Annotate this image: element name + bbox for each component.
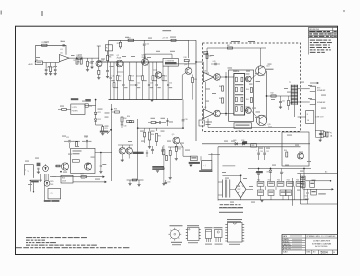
resistor R14 drop bbox=[152, 62, 154, 75]
bridge rectifier CR7 bbox=[235, 181, 246, 197]
resistor R11 bbox=[128, 39, 134, 41]
cluster small parts bbox=[127, 121, 132, 123]
package TO92 Q bbox=[206, 230, 212, 239]
text TO5 labels bbox=[170, 225, 183, 226]
protection box bbox=[282, 132, 309, 166]
resistor R6 bbox=[107, 51, 109, 55]
wire preamp out bbox=[95, 152, 112, 154]
svg-text:R51: R51 bbox=[268, 180, 271, 182]
diode CR1 bbox=[95, 100, 97, 112]
svg-text:Q2: Q2 bbox=[117, 55, 119, 57]
title block bbox=[282, 234, 338, 254]
revision table bbox=[309, 28, 338, 38]
label TONE CONTROL bbox=[152, 166, 164, 168]
connector P2 speaker bbox=[310, 100, 316, 105]
svg-text:C20: C20 bbox=[89, 106, 92, 108]
svg-text:C13: C13 bbox=[150, 83, 153, 85]
text module ref bbox=[204, 51, 208, 54]
potentiometer R25 mic volume bbox=[44, 180, 50, 186]
svg-text:B: B bbox=[334, 252, 336, 254]
component inside box bbox=[72, 160, 79, 163]
resistor R19 bbox=[192, 78, 194, 83]
wire input top bbox=[196, 61, 203, 63]
capacitor C50 electrolytic bbox=[258, 147, 260, 153]
capacitor C33 bbox=[182, 100, 184, 120]
module outline dashed power amp bbox=[202, 43, 300, 131]
svg-text:CR2: CR2 bbox=[97, 119, 100, 121]
transistor Q10 bbox=[214, 74, 221, 81]
svg-text:R41: R41 bbox=[246, 99, 249, 101]
label PREAMP dark bbox=[133, 152, 144, 154]
capacitor C14 drop bbox=[167, 66, 169, 84]
cluster mid extra 2 bbox=[167, 118, 169, 126]
wire q20 drop bbox=[181, 75, 183, 100]
wire verticals ps bbox=[265, 186, 267, 190]
wire pair leads bbox=[121, 154, 123, 160]
transformer T1 output choke bbox=[290, 85, 292, 105]
resistor R37 bbox=[169, 147, 171, 150]
svg-text:2A: 2A bbox=[330, 135, 333, 138]
enclosure preamp box bbox=[71, 148, 95, 173]
wire ps divider bbox=[292, 178, 294, 206]
node shield dot bbox=[33, 191, 34, 192]
wire tone riser bbox=[137, 119, 139, 180]
transistor Q3 bbox=[142, 59, 149, 66]
resistor R21 bbox=[102, 127, 104, 132]
shield box bbox=[48, 189, 61, 199]
bridge diodes bbox=[238, 185, 240, 187]
wire tone bus bbox=[138, 127, 183, 129]
svg-text:25 WATT AMPLIFIER: 25 WATT AMPLIFIER bbox=[313, 240, 331, 243]
resistor R2 bbox=[50, 63, 52, 67]
svg-text:U2: U2 bbox=[204, 70, 206, 72]
svg-text:CR1: CR1 bbox=[97, 112, 100, 114]
svg-text:+17.5V: +17.5V bbox=[162, 38, 169, 40]
op-amp U1 bbox=[59, 55, 69, 62]
svg-text:REVISIONS: REVISIONS bbox=[309, 29, 320, 31]
ground under pots bbox=[149, 144, 151, 147]
transistor Q14 power bbox=[256, 66, 266, 76]
interlock box bbox=[310, 181, 315, 188]
resistor R15 drop bbox=[162, 66, 164, 75]
svg-text:R13: R13 bbox=[131, 76, 134, 78]
resistor R42 feedback bbox=[271, 95, 276, 97]
svg-text:L-136-08: L-136-08 bbox=[236, 131, 243, 133]
wire U1 output bbox=[69, 57, 99, 59]
svg-text:C12: C12 bbox=[137, 83, 140, 85]
capacitor C30 bbox=[121, 123, 123, 125]
text output label bbox=[266, 69, 274, 70]
transistor Q11 bbox=[214, 110, 221, 117]
resistor R13 drop bbox=[129, 62, 131, 75]
resistor R1 bbox=[42, 44, 47, 46]
svg-text:CR5: CR5 bbox=[266, 172, 269, 174]
resistor R12 drop bbox=[116, 62, 118, 75]
outlet box bbox=[311, 189, 317, 195]
transistor Q13 bbox=[245, 108, 251, 114]
box bias small bbox=[199, 120, 204, 126]
transistor Q7 bbox=[119, 148, 125, 154]
resistor R32 bbox=[166, 156, 168, 161]
capacitor C13 drop bbox=[148, 62, 150, 84]
svg-text:R34: R34 bbox=[127, 116, 130, 118]
svg-text:C22: C22 bbox=[85, 137, 88, 139]
svg-text:OPERADIO MFG. CO. ST.CHARLES: OPERADIO MFG. CO. ST.CHARLES bbox=[306, 235, 336, 238]
svg-text:NO.: NO. bbox=[313, 251, 316, 253]
text component value labels bbox=[36, 56, 40, 59]
wire ac line 2 bbox=[300, 203, 337, 205]
svg-text:CR4: CR4 bbox=[241, 140, 244, 142]
svg-text:R18: R18 bbox=[184, 57, 187, 59]
resistor R27 bbox=[81, 176, 86, 178]
svg-text:R26: R26 bbox=[62, 178, 65, 180]
capacitor C22 bbox=[82, 140, 86, 142]
resistor R39 bbox=[144, 128, 146, 132]
package DIP14 bbox=[228, 223, 243, 243]
svg-text:FILTER: FILTER bbox=[72, 110, 78, 112]
svg-text:Q3: Q3 bbox=[142, 55, 144, 57]
svg-text:Q15: Q15 bbox=[267, 124, 270, 126]
svg-text:R56: R56 bbox=[284, 150, 287, 152]
label fl2 dark2 bbox=[85, 99, 91, 102]
svg-text:U1: U1 bbox=[60, 53, 62, 55]
resistor R38 bbox=[115, 111, 120, 113]
capacitor C12 drop bbox=[135, 62, 137, 84]
svg-text:C50: C50 bbox=[260, 151, 263, 153]
svg-text:CHECKED: CHECKED bbox=[283, 244, 292, 246]
wire left riser bbox=[111, 104, 113, 181]
wire vertical pair bbox=[43, 174, 45, 200]
label mic dark bbox=[37, 163, 41, 166]
filter box FL2 bbox=[71, 104, 85, 115]
resistor R46 bbox=[222, 98, 224, 103]
transistor Q4 bbox=[155, 72, 161, 78]
svg-text:SPEAKER: SPEAKER bbox=[317, 89, 326, 92]
wire ground bus ps bbox=[218, 199, 308, 201]
svg-text:SCHEMATIC DIAGRAM: SCHEMATIC DIAGRAM bbox=[312, 242, 332, 245]
svg-text:C14: C14 bbox=[169, 83, 172, 85]
wire shield drop bbox=[33, 182, 35, 191]
diode CR4 bbox=[242, 142, 245, 145]
svg-text:R38: R38 bbox=[114, 109, 117, 111]
svg-text:y: y bbox=[28, 170, 29, 172]
svg-text:+ |: + | bbox=[203, 165, 206, 167]
text package header bbox=[219, 207, 243, 208]
capacitor C1 bbox=[62, 44, 64, 47]
resistor R22 bbox=[76, 142, 78, 147]
svg-text:+ | +: + | + bbox=[50, 193, 54, 195]
fuse F2 bbox=[300, 176, 305, 180]
outer board box bbox=[229, 70, 254, 121]
svg-text:R21: R21 bbox=[105, 128, 108, 130]
svg-text:R42: R42 bbox=[271, 93, 274, 95]
svg-text:R40: R40 bbox=[246, 89, 249, 91]
diode CR3 bbox=[235, 142, 238, 145]
capacitor C32 bbox=[162, 147, 164, 150]
svg-text:16: 16 bbox=[307, 120, 309, 122]
capacitor C51 electrolytic bbox=[264, 147, 266, 153]
capacitor C35 bbox=[146, 150, 148, 152]
svg-text:2N408: 2N408 bbox=[117, 57, 122, 59]
resistor R? drop bbox=[142, 62, 144, 75]
text module top bbox=[231, 41, 240, 42]
svg-text:R2: R2 bbox=[52, 67, 54, 69]
resistor R35 bbox=[175, 144, 177, 146]
label MIC VOLUME bbox=[44, 200, 51, 202]
resistor R40 bbox=[250, 88, 252, 93]
ground tone bbox=[156, 170, 159, 172]
wire bottom rail bbox=[208, 127, 296, 129]
resistor R44 bbox=[323, 132, 325, 137]
wire ac line mid b bbox=[303, 188, 333, 190]
text DIP14 labels bbox=[227, 219, 242, 220]
resistor R3 bbox=[77, 57, 82, 59]
transistor Q12 bbox=[245, 76, 251, 82]
svg-text:DWG.: DWG. bbox=[307, 251, 312, 253]
capacitor C4 bbox=[107, 64, 109, 70]
label MIC INPUT bbox=[31, 181, 39, 183]
svg-text:R12: R12 bbox=[118, 76, 121, 78]
wire top bus bbox=[109, 39, 189, 41]
ground bbox=[101, 132, 104, 134]
wire collector feeds bbox=[251, 75, 256, 80]
label rail dark bbox=[242, 141, 247, 143]
wire mic to pot bbox=[31, 179, 42, 181]
wire speaker feeds bbox=[211, 153, 213, 161]
capacitor C10 bbox=[143, 40, 145, 43]
svg-text:R19: R19 bbox=[194, 79, 197, 81]
wire ground bus bbox=[109, 99, 183, 101]
resistor R48 bbox=[206, 54, 208, 59]
svg-text:C54: C54 bbox=[305, 196, 308, 198]
svg-text:(: ( bbox=[25, 170, 26, 172]
wire opamp outputs bbox=[213, 76, 215, 78]
potentiometer R31 treble bbox=[156, 128, 158, 131]
svg-text:LINE OUT: LINE OUT bbox=[316, 117, 325, 119]
IC U4 power IC bbox=[234, 74, 245, 116]
transistor Q15 power bbox=[256, 115, 266, 125]
capacitor C43 bbox=[214, 63, 216, 66]
transistor Q8 bbox=[126, 148, 132, 154]
wire supply rail 2 bbox=[218, 146, 301, 148]
svg-text:250K: 250K bbox=[62, 180, 67, 182]
wire taps bbox=[298, 88, 310, 90]
resistor R43 bbox=[288, 100, 290, 105]
wire top bus tap bbox=[188, 40, 190, 58]
speaker box B1 bbox=[202, 161, 212, 170]
svg-text:SCALE: SCALE bbox=[283, 251, 288, 254]
svg-text:C51: C51 bbox=[266, 151, 269, 153]
resistor R7 bbox=[76, 59, 78, 64]
wire to out jack bbox=[180, 143, 191, 157]
capacitor C? drop bbox=[122, 62, 124, 84]
svg-text:C21: C21 bbox=[66, 137, 69, 139]
cluster mid extra bbox=[151, 122, 156, 124]
label ps dark bbox=[256, 171, 263, 173]
svg-text:Q20: Q20 bbox=[184, 64, 187, 66]
diode CR5 bbox=[270, 169, 272, 171]
svg-text:AC-DC MODEL: AC-DC MODEL bbox=[315, 245, 328, 248]
bias board box bbox=[234, 123, 252, 129]
svg-text:Q14: Q14 bbox=[266, 66, 269, 68]
svg-text:C10: C10 bbox=[146, 44, 149, 46]
svg-text:R30: R30 bbox=[151, 134, 154, 136]
text TO126 labels bbox=[214, 227, 223, 228]
transistor Q1 bbox=[96, 61, 102, 67]
connector J3 cluster bbox=[191, 156, 198, 161]
svg-text:F1: F1 bbox=[330, 133, 332, 135]
svg-text:R6: R6 bbox=[109, 57, 111, 59]
text DIP8 labels bbox=[187, 225, 199, 226]
wire feedback left bbox=[205, 82, 207, 109]
capacitor C42 bbox=[319, 131, 321, 133]
wire main signal bus bbox=[99, 61, 163, 63]
transistor Q20 bbox=[185, 68, 192, 75]
wire pot leads bbox=[45, 174, 47, 180]
svg-text:R4: R4 bbox=[89, 63, 91, 65]
svg-text:+: + bbox=[255, 172, 256, 174]
capacitor C? drop bbox=[156, 62, 158, 84]
label fl2 dark bbox=[71, 98, 79, 100]
wire output rail bbox=[266, 71, 268, 121]
resistor network inside U4 bbox=[235, 77, 237, 82]
capacitor C3 bbox=[54, 63, 56, 69]
connector J1 aux jack bbox=[35, 61, 42, 65]
capacitor C34 bbox=[165, 180, 167, 182]
wire top bus left drop bbox=[108, 40, 110, 62]
text U4 interior bbox=[235, 83, 243, 86]
wire stage top link bbox=[145, 53, 172, 55]
transistor Q5 bbox=[61, 163, 68, 170]
wire ac verticals bbox=[299, 174, 301, 205]
text amp labels bbox=[205, 88, 210, 91]
svg-text:R34: R34 bbox=[124, 118, 127, 120]
svg-text:AC: AC bbox=[325, 171, 328, 174]
svg-text:R45: R45 bbox=[219, 86, 222, 88]
capacitor C54 bbox=[307, 189, 309, 192]
svg-text:DRAWN: DRAWN bbox=[283, 238, 290, 241]
svg-text:C41: C41 bbox=[282, 101, 285, 103]
svg-text:R7: R7 bbox=[73, 60, 75, 62]
text enclosure labels bbox=[73, 150, 82, 153]
transistor Q6 bbox=[84, 163, 91, 170]
transformer T2 power bbox=[221, 180, 223, 198]
svg-text:R50: R50 bbox=[257, 180, 260, 182]
diode CR2 bbox=[95, 115, 97, 119]
cluster fuse parts bbox=[321, 131, 323, 133]
connector J2 mic jack bbox=[24, 165, 33, 178]
loudness block LS1 bbox=[163, 58, 178, 66]
svg-text:DATE: DATE bbox=[283, 235, 288, 238]
wire t2 leads bbox=[218, 181, 222, 183]
wire link ticks bbox=[117, 71, 123, 73]
label preamp dark right bbox=[100, 131, 109, 133]
capacitor C23 bbox=[37, 167, 39, 169]
svg-text:5 CPS: 5 CPS bbox=[72, 107, 78, 109]
resistor R45 bbox=[222, 86, 224, 91]
svg-text:CR7: CR7 bbox=[237, 189, 240, 191]
gain block G1 bbox=[61, 175, 73, 183]
resistor row 1 bbox=[257, 181, 264, 186]
svg-text:T1: T1 bbox=[289, 82, 291, 84]
wire mic bus bbox=[73, 181, 105, 183]
wire box links bbox=[281, 132, 283, 144]
op-amp U2 bbox=[203, 72, 213, 82]
wire ac line mid a bbox=[305, 180, 330, 182]
svg-text:R47: R47 bbox=[227, 45, 230, 47]
wire phono bus bbox=[50, 176, 105, 178]
label speaker dark bbox=[199, 170, 212, 172]
svg-text:SPEAKER: SPEAKER bbox=[317, 101, 326, 104]
resistor R18 bbox=[184, 59, 189, 61]
cluster lower bbox=[127, 179, 144, 181]
text notes bbox=[26, 236, 32, 239]
package TO5 bottom view bbox=[170, 230, 179, 239]
capacitor C5 bbox=[91, 58, 93, 62]
wire supply rail 1 bbox=[202, 143, 310, 145]
node junction dots bbox=[98, 61, 99, 62]
svg-text:8: 8 bbox=[307, 114, 308, 116]
svg-text:+: + bbox=[256, 150, 257, 152]
resistor R34 bbox=[129, 121, 134, 123]
notes list right bbox=[308, 38, 310, 55]
ground ps bbox=[260, 199, 263, 201]
svg-text:R35: R35 bbox=[178, 149, 181, 151]
capacitor C52 electrolytic bbox=[258, 169, 260, 173]
svg-text:R31: R31 bbox=[158, 136, 161, 138]
wire output to edge bbox=[267, 95, 292, 97]
node arrow to main bbox=[105, 181, 107, 183]
box CR8 bbox=[251, 144, 257, 148]
wire B+ riser bbox=[195, 40, 197, 141]
resistor R47 bbox=[227, 47, 232, 49]
potentiometer R30 bass bbox=[149, 128, 151, 131]
svg-text:C2: C2 bbox=[47, 67, 49, 69]
svg-text:C33: C33 bbox=[184, 119, 187, 121]
ground J3 bbox=[190, 165, 193, 167]
node wiper arrow bbox=[107, 130, 111, 135]
wire cr link bbox=[315, 130, 324, 132]
potentiometer R24 phono volume bbox=[43, 166, 49, 172]
switch S1 box bbox=[300, 182, 305, 188]
resistor row 2 bbox=[258, 190, 264, 196]
svg-text:U3: U3 bbox=[204, 107, 206, 109]
text bus part no bbox=[162, 30, 171, 31]
resistor R56 bbox=[286, 152, 288, 157]
resistor R34b bbox=[121, 117, 123, 122]
wire bridge leads bbox=[230, 188, 236, 190]
resistor R? drop bbox=[113, 62, 115, 82]
transistor Q9 bbox=[173, 137, 180, 144]
wire stage link bbox=[176, 63, 196, 65]
wire row drops bbox=[260, 196, 262, 200]
svg-text:R27: R27 bbox=[81, 174, 84, 176]
svg-text:C34: C34 bbox=[167, 182, 170, 184]
transistor Q18 bbox=[298, 153, 304, 159]
wire inner rail bbox=[225, 72, 227, 116]
connector P1 ext speaker bbox=[310, 86, 316, 91]
package TO126 bbox=[215, 230, 223, 238]
svg-text:FL: FL bbox=[106, 47, 108, 49]
capacitor C24 bbox=[100, 153, 102, 166]
wire speaker return bbox=[314, 91, 316, 137]
wire feedback top bbox=[36, 45, 66, 62]
svg-text:5004: 5004 bbox=[321, 251, 328, 255]
resistor R9 on bus bbox=[171, 39, 176, 41]
wire row1 bbox=[255, 183, 311, 185]
svg-text:LOUDNESS: LOUDNESS bbox=[165, 60, 174, 62]
connector P3 line out bbox=[306, 111, 314, 124]
